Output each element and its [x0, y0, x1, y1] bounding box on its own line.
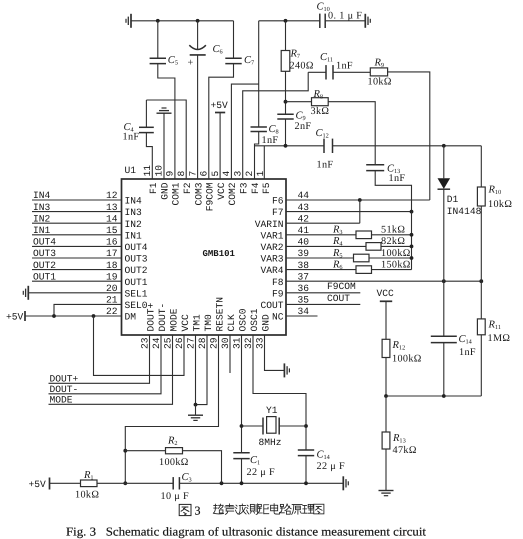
- svg-text:3kΩ: 3kΩ: [311, 106, 330, 117]
- resistor R4: [366, 243, 381, 251]
- junction rail C1: [240, 481, 244, 485]
- wire F5 node line: [255, 145, 325, 147]
- resistor R12: [382, 339, 390, 357]
- resistor R5: [354, 254, 370, 262]
- capacitor C5: [157, 21, 159, 59]
- caption figure 3 Chinese: [179, 504, 191, 515]
- svg-text:32: 32: [243, 337, 254, 349]
- ground at pin33: [283, 363, 285, 377]
- svg-text:DOUT+: DOUT+: [145, 302, 156, 331]
- capacitor C6 electrolytic: [197, 21, 199, 50]
- wire VAR4 line: [286, 269, 356, 271]
- wire OUT3 line: [32, 257, 122, 259]
- svg-text:C3: C3: [182, 472, 192, 484]
- svg-text:R13: R13: [392, 433, 406, 445]
- junction C9 bottom: [284, 144, 288, 148]
- wire C8 riser: [258, 21, 260, 127]
- svg-text:82kΩ: 82kΩ: [381, 236, 405, 247]
- svg-text:F3: F3: [239, 182, 250, 194]
- svg-text:DM: DM: [125, 312, 137, 323]
- junction DM b: [92, 314, 96, 318]
- junction R4 right: [410, 245, 414, 249]
- svg-text:F4: F4: [250, 182, 261, 194]
- wire DOUT+ line: [49, 335, 150, 383]
- svg-text:150kΩ: 150kΩ: [381, 259, 411, 270]
- junction rail C14: [304, 481, 308, 485]
- wire OUT4 line: [32, 245, 122, 247]
- svg-text:C14: C14: [459, 334, 473, 346]
- svg-text:R6: R6: [332, 259, 343, 271]
- svg-text:IN4148: IN4148: [447, 206, 482, 217]
- svg-text:27: 27: [185, 338, 196, 350]
- svg-text:R7: R7: [290, 49, 301, 61]
- svg-text:OUT4: OUT4: [33, 237, 56, 248]
- wire F5 pin riser: [263, 146, 265, 179]
- svg-text:OUT1: OUT1: [33, 271, 56, 282]
- wire C4 to F2: [146, 100, 186, 179]
- svg-text:1nF: 1nF: [123, 132, 140, 143]
- resistor R3: [356, 231, 372, 239]
- svg-text:R8: R8: [313, 89, 324, 101]
- svg-text:GND: GND: [159, 182, 170, 200]
- wire bottom node line: [386, 395, 481, 397]
- wire CLK stub: [229, 335, 231, 373]
- svg-text:22 μ F: 22 μ F: [317, 461, 346, 472]
- wire SEL0 line: [54, 304, 122, 316]
- svg-text:10 μ F: 10 μ F: [161, 491, 190, 502]
- capacitor C10: [319, 14, 321, 28]
- svg-text:5: 5: [210, 171, 221, 177]
- junction TM: [194, 403, 198, 407]
- svg-text:R11: R11: [488, 320, 502, 332]
- junction node R12: [384, 394, 388, 398]
- capacitor C12: [323, 139, 325, 153]
- svg-text:F9: F9: [272, 288, 284, 299]
- resistor R9: [370, 68, 387, 76]
- svg-text:OUT3: OUT3: [125, 254, 148, 265]
- svg-text:SEL0: SEL0: [125, 300, 148, 311]
- svg-text:1nF: 1nF: [459, 347, 476, 358]
- capacitor C7: [233, 21, 235, 59]
- svg-text:CLK: CLK: [226, 314, 237, 332]
- capacitor C13: [366, 164, 384, 166]
- svg-text:30: 30: [220, 337, 231, 349]
- svg-text:22 μ F: 22 μ F: [247, 467, 276, 478]
- svg-text:IN1: IN1: [33, 225, 51, 236]
- svg-text:NC: NC: [272, 312, 284, 323]
- svg-text:COM1: COM1: [171, 182, 182, 205]
- junction RESETN R2: [123, 449, 127, 453]
- svg-text:6: 6: [199, 171, 210, 177]
- wire COUT line: [286, 303, 360, 305]
- svg-text:F6: F6: [272, 196, 284, 207]
- wire TM0: [196, 335, 208, 405]
- wire OSC0: [241, 335, 243, 453]
- svg-text:DOUT-: DOUT-: [157, 303, 168, 332]
- svg-text:VCC: VCC: [377, 288, 395, 299]
- svg-text:C12: C12: [316, 128, 329, 140]
- svg-text:C1: C1: [250, 455, 260, 467]
- wire VAR3 line: [286, 257, 354, 259]
- wire OSC1: [253, 335, 306, 450]
- capacitor C8: [251, 126, 267, 128]
- svg-text:IN4: IN4: [125, 196, 143, 207]
- svg-text:R10: R10: [488, 185, 502, 197]
- svg-text:VCC: VCC: [216, 182, 227, 200]
- svg-text:C5: C5: [168, 55, 178, 66]
- svg-text:1nF: 1nF: [389, 173, 406, 184]
- wire F3 to C11: [243, 72, 309, 179]
- svg-text:Fig. 3 Schematic diagram of: Fig. 3 Schematic diagram of ultrasonic d…: [66, 525, 427, 539]
- svg-text:R12: R12: [392, 340, 406, 352]
- junction rail C6: [196, 19, 200, 23]
- ground at rail: [342, 476, 344, 490]
- wire IN4 line: [32, 199, 122, 201]
- junction DM a: [52, 314, 56, 318]
- resistor R13: [385, 396, 387, 432]
- resistor R11: [480, 281, 482, 319]
- svg-text:7: 7: [187, 171, 198, 177]
- svg-text:+: +: [188, 58, 194, 69]
- svg-text:F9COM: F9COM: [205, 182, 216, 211]
- junction node C14: [442, 394, 446, 398]
- ground at R13: [379, 490, 394, 492]
- svg-text:26: 26: [174, 337, 185, 349]
- svg-text:VAR3: VAR3: [260, 254, 283, 265]
- wire VAR1 line: [286, 234, 356, 236]
- svg-text:VAR4: VAR4: [260, 265, 283, 276]
- svg-text:23: 23: [139, 337, 150, 349]
- svg-text:COUT: COUT: [327, 293, 350, 304]
- svg-text:10kΩ: 10kΩ: [75, 490, 99, 501]
- wire C13 to F7: [375, 171, 411, 212]
- svg-text:47kΩ: 47kΩ: [393, 445, 417, 456]
- svg-text:2nF: 2nF: [295, 121, 312, 132]
- svg-text:OSC0: OSC0: [237, 308, 248, 331]
- svg-text:R3: R3: [332, 225, 343, 237]
- svg-text:COM2: COM2: [227, 182, 238, 205]
- svg-text:+5V: +5V: [29, 479, 47, 490]
- svg-text:MODE: MODE: [168, 308, 179, 331]
- svg-text:C11: C11: [320, 52, 333, 64]
- svg-text:100kΩ: 100kΩ: [392, 354, 422, 365]
- wire RESETN: [125, 335, 218, 483]
- resistor R1: [81, 480, 98, 487]
- svg-text:29: 29: [208, 337, 219, 349]
- junction top line R7: [284, 19, 288, 23]
- resistor R10: [480, 146, 482, 187]
- wire TM1: [195, 335, 197, 405]
- wire IN3 line: [32, 211, 122, 213]
- svg-text:TM1: TM1: [191, 314, 202, 332]
- wire OUT1 line: [32, 280, 122, 282]
- wire VARIN line: [286, 222, 360, 224]
- ground top-left: [130, 14, 132, 28]
- svg-text:51kΩ: 51kΩ: [381, 225, 405, 236]
- svg-text:F2: F2: [182, 182, 193, 194]
- svg-text:SEL1: SEL1: [125, 288, 148, 299]
- svg-text:F7: F7: [272, 207, 284, 218]
- ground at SEL1: [27, 286, 29, 300]
- svg-text:1nF: 1nF: [262, 135, 279, 146]
- wire IN1 line: [32, 234, 122, 236]
- junction OSC0 crystal: [240, 424, 244, 428]
- op-amp U1 chip body GMB101: [122, 179, 287, 335]
- svg-text:OUT2: OUT2: [33, 260, 56, 271]
- svg-text:11: 11: [142, 165, 153, 177]
- svg-text:GMB101: GMB101: [203, 249, 236, 259]
- capacitor C14 1nF: [431, 335, 457, 337]
- svg-text:33: 33: [254, 337, 265, 349]
- capacitor C1: [233, 452, 249, 454]
- svg-text:VAR2: VAR2: [260, 242, 283, 253]
- junction R5 right: [410, 256, 414, 260]
- wire F8 line: [286, 280, 481, 282]
- svg-text:OUT1: OUT1: [125, 277, 148, 288]
- svg-text:C7: C7: [244, 55, 254, 66]
- svg-text:2: 2: [244, 171, 255, 177]
- svg-text:C6: C6: [213, 44, 223, 56]
- wire VCC pin26: [94, 316, 185, 375]
- junction F6 VARIN: [358, 198, 362, 202]
- svg-text:9: 9: [165, 171, 176, 177]
- svg-text:1nF: 1nF: [336, 61, 353, 72]
- svg-text:R9: R9: [374, 57, 385, 69]
- svg-text:3: 3: [233, 171, 244, 177]
- svg-text:IN3: IN3: [33, 202, 51, 213]
- svg-text:OSC1: OSC1: [249, 308, 260, 331]
- diode D1: [443, 146, 445, 179]
- capacitor C11: [308, 71, 326, 73]
- svg-text:TM0: TM0: [203, 314, 214, 332]
- wire SEL1 line: [28, 292, 121, 294]
- svg-text:C8: C8: [269, 124, 279, 136]
- svg-text:R5: R5: [332, 248, 343, 259]
- svg-text:IN2: IN2: [33, 213, 51, 224]
- crystal Y1: [242, 425, 264, 427]
- svg-text:1nF: 1nF: [317, 160, 334, 171]
- svg-text:10: 10: [153, 165, 164, 177]
- svg-text:U1: U1: [125, 165, 137, 176]
- junction rail C5: [156, 19, 160, 23]
- wire IN2 line: [32, 222, 122, 224]
- capacitor C9: [277, 113, 293, 115]
- wire R2 line: [125, 450, 165, 452]
- ground at GND pin10: [162, 107, 167, 109]
- wire F7 line: [286, 211, 412, 213]
- svg-text:R1: R1: [83, 470, 94, 482]
- resistor R8: [286, 101, 312, 103]
- svg-text:10kΩ: 10kΩ: [488, 199, 512, 210]
- resistor R6: [356, 266, 372, 274]
- svg-text:1MΩ: 1MΩ: [488, 333, 511, 344]
- svg-text:MODE: MODE: [50, 394, 73, 405]
- ground at C10: [364, 14, 366, 28]
- junction F7 node: [410, 210, 414, 214]
- svg-text:VARIN: VARIN: [255, 219, 284, 230]
- svg-text:+5V: +5V: [211, 100, 229, 111]
- svg-text:COM3: COM3: [193, 182, 204, 205]
- svg-text:COUT: COUT: [260, 300, 283, 311]
- wire F6 line: [286, 199, 430, 201]
- svg-text:D1: D1: [447, 194, 459, 205]
- wire OUT2 line: [32, 269, 122, 271]
- junction C12 D1: [442, 144, 446, 148]
- junction OSC1 crystal: [304, 424, 308, 428]
- wire F9 line: [286, 292, 360, 294]
- svg-text:F9COM: F9COM: [327, 281, 356, 292]
- wire VAR2 line: [286, 245, 366, 247]
- svg-text:OUT3: OUT3: [33, 248, 56, 259]
- capacitor C4: [145, 100, 147, 127]
- junction R3 right: [410, 233, 414, 237]
- svg-text:DOUT-: DOUT-: [50, 384, 79, 395]
- wire GND pin33: [265, 335, 285, 370]
- junction R7 R8: [284, 100, 288, 104]
- svg-text:R2: R2: [167, 436, 178, 448]
- svg-text:10kΩ: 10kΩ: [368, 77, 392, 88]
- svg-text:25: 25: [162, 337, 173, 349]
- svg-text:8MHz: 8MHz: [259, 437, 282, 448]
- wire F6 to VARIN: [359, 200, 361, 223]
- svg-text:IN1: IN1: [125, 230, 143, 241]
- resistor R7: [285, 21, 287, 51]
- svg-text:100kΩ: 100kΩ: [159, 457, 189, 468]
- svg-text:IN4: IN4: [33, 190, 51, 201]
- resistor R2: [166, 448, 183, 454]
- svg-text:IN2: IN2: [125, 219, 143, 230]
- svg-text:+5V: +5V: [6, 311, 24, 322]
- capacitor C3: [172, 477, 174, 489]
- wire rail right: [179, 482, 343, 484]
- svg-text:F8: F8: [272, 277, 284, 288]
- svg-text:28: 28: [197, 337, 208, 349]
- svg-text:VCC: VCC: [180, 314, 191, 332]
- wire R-network vertical: [411, 212, 413, 270]
- svg-text:100kΩ: 100kΩ: [381, 248, 411, 259]
- wire rail mid: [97, 482, 173, 484]
- svg-text:VAR1: VAR1: [260, 230, 283, 241]
- wire top rail: [131, 20, 234, 22]
- svg-text:IN3: IN3: [125, 207, 143, 218]
- svg-text:DOUT+: DOUT+: [50, 373, 79, 384]
- wire DM line: [25, 315, 122, 317]
- svg-text:GND: GND: [260, 314, 271, 332]
- svg-text:Y1: Y1: [266, 405, 278, 416]
- svg-text:OUT4: OUT4: [125, 242, 148, 253]
- capacitor C14 22uF: [298, 449, 314, 451]
- junction rail R2: [220, 481, 224, 485]
- svg-text:F1: F1: [148, 182, 159, 194]
- wire NC stub: [286, 315, 318, 317]
- svg-text:F5: F5: [261, 182, 272, 194]
- wire top line right: [259, 20, 320, 22]
- svg-text:31: 31: [231, 337, 242, 349]
- svg-text:240Ω: 240Ω: [290, 61, 314, 72]
- junction F8 D1: [442, 279, 446, 283]
- svg-text:C14: C14: [317, 450, 331, 462]
- svg-text:8: 8: [176, 171, 187, 177]
- svg-text:R4: R4: [332, 236, 343, 248]
- svg-text:4: 4: [221, 171, 232, 177]
- svg-text:3: 3: [195, 504, 201, 518]
- svg-text:0. 1 μ F: 0. 1 μ F: [328, 10, 362, 21]
- svg-text:RESETN: RESETN: [214, 297, 225, 332]
- wire COM2 jog: [231, 84, 258, 179]
- wire DOUT- line: [49, 335, 162, 394]
- svg-text:24: 24: [151, 337, 162, 349]
- wire MODE line: [49, 335, 173, 404]
- svg-text:OUT2: OUT2: [125, 265, 148, 276]
- junction RESETN rail: [123, 481, 127, 485]
- junction F8 R10: [479, 279, 483, 283]
- wire rail left: [50, 482, 81, 484]
- ground at TM: [195, 405, 197, 416]
